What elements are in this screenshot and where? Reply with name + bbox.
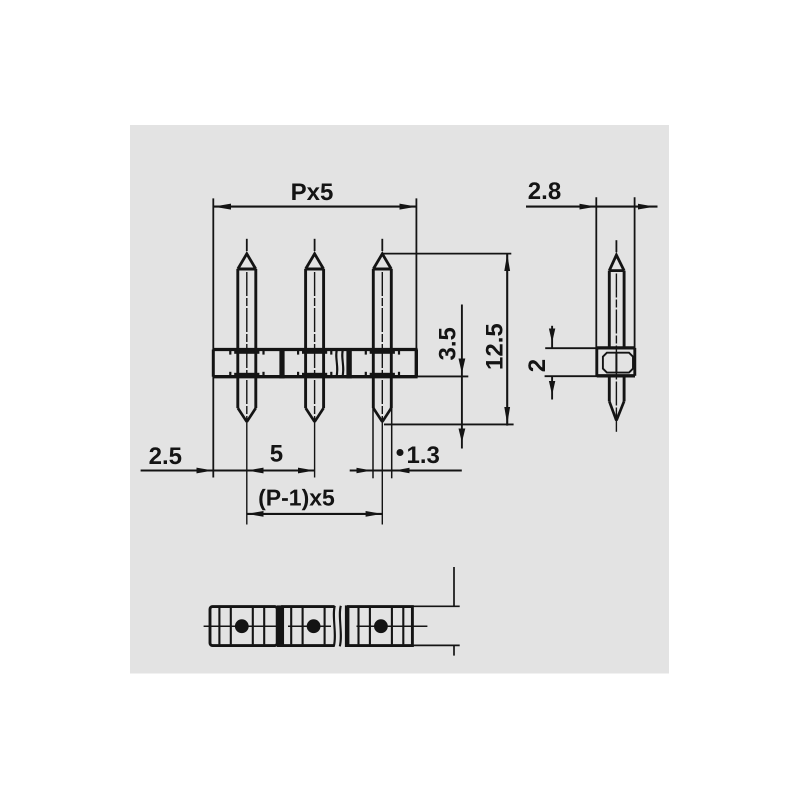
svg-text:2.5: 2.5 [149, 443, 182, 470]
side view: 2 dim lower arrow [549, 381, 555, 395]
bottom view bottom edge extension to right [412, 644, 459, 646]
label 5 [270, 440, 283, 467]
label 3.5 [435, 327, 462, 360]
arrow (P-1)x5 right [366, 511, 383, 517]
body collar around pin 2 [302, 348, 327, 378]
svg-text:2: 2 [524, 359, 551, 372]
body joint bar between unit 1 and unit 2 [279, 348, 284, 378]
side view: 2 top extension line [545, 347, 598, 349]
svg-text:3.5: 3.5 [435, 327, 462, 360]
label (P-1)x5 [258, 484, 335, 510]
svg-text:Px5: Px5 [291, 179, 334, 206]
dimension 3.5 upper line [461, 305, 463, 449]
dimension 3.5 upper arrow [459, 359, 466, 374]
extension line right of Px5 [415, 198, 417, 350]
body unit 3 left thick edge (front view) [346, 348, 351, 378]
side view: 2.8 left arrow [580, 204, 597, 210]
arrow 5 right [298, 468, 314, 474]
side view: 2.8 right extension line [634, 197, 636, 348]
arrow 2.5 pointing right [197, 468, 214, 474]
reference line from pin 3 top apex (12.5 datum) [382, 253, 511, 255]
dimension 12.5 line [506, 254, 508, 426]
arrow 1.3 left (pointing right) [357, 468, 372, 474]
bottom view unit 2 outline [283, 607, 335, 646]
arrow (P-1)x5 left [247, 511, 264, 517]
side view pin upper part [609, 240, 624, 432]
bottom view break curves [334, 606, 341, 647]
body front view outline [213, 350, 417, 377]
label 2 [524, 359, 551, 372]
bottom view vertical projection line upper [453, 567, 455, 606]
bottom view top edge extension to right [412, 605, 459, 607]
body collar around pin 3 [370, 348, 395, 378]
dimension 12.5 top arrow [504, 254, 510, 271]
side view: 2 dim lower line [551, 376, 553, 399]
bottom view unit 1 pin circle [235, 619, 249, 633]
bottom dimension line (1.3 segment) [350, 469, 462, 471]
label 12.5 [482, 323, 509, 370]
side view body [597, 348, 635, 376]
side view body inner chamfered box [603, 353, 633, 373]
svg-text:5: 5 [270, 440, 283, 467]
bullet of 1.3 [397, 449, 404, 456]
svg-text:2.8: 2.8 [528, 178, 561, 205]
bottom view unit 3 internal lines [359, 608, 404, 645]
svg-text:1.3: 1.3 [406, 442, 439, 469]
extension line pin3 left edge (1.3 datum) [372, 408, 374, 478]
side view: dimension 2.8 line [526, 206, 658, 208]
bottom view unit 1 centerline [204, 625, 280, 627]
dimension Px5 line [213, 206, 417, 208]
pin 3 front view [373, 239, 391, 525]
dimension (P-1)x5 line [247, 513, 382, 515]
dimension Px5 left arrow [214, 204, 232, 210]
bottom view joint bar [277, 605, 283, 647]
bottom view unit 3 centerline [357, 625, 428, 627]
label Px5 [291, 179, 334, 206]
reference line body bottom extended (3.5 datum) [396, 375, 468, 377]
label 2.8 [528, 178, 561, 205]
bottom dimension line (2.5 / 5 segment) [141, 469, 315, 471]
reference line from pin 3 bottom tip (12.5 datum) [384, 423, 514, 425]
arrow 1.3 right (pointing left) [395, 468, 410, 474]
dimension 12.5 bottom arrow [504, 407, 510, 424]
pin 2 front view [306, 239, 324, 478]
bottom view unit 2 centerline [288, 625, 331, 627]
dimension Px5 right arrow [400, 204, 417, 210]
pin 1 front view [238, 239, 256, 525]
side view: 2 dim upper line [551, 326, 553, 348]
extension line pin3 right edge (1.3 datum) [391, 408, 393, 478]
bottom view unit 2 internal lines [291, 608, 324, 645]
bottom view unit 1 internal lines [219, 608, 264, 645]
dimension 3.5 lower arrow [459, 429, 466, 443]
side view: 2.8 left extension line [595, 197, 597, 348]
svg-text:(P-1)x5: (P-1)x5 [258, 484, 335, 510]
arrow 5 left [247, 468, 264, 474]
label 1.3 [406, 442, 439, 469]
bottom view unit 3 outline [347, 607, 412, 646]
bottom view unit 3 left thick bar [345, 605, 350, 647]
body notch ticks [229, 348, 400, 378]
side view pin lower stub [609, 376, 624, 421]
svg-text:12.5: 12.5 [482, 323, 509, 370]
side view pin through body [615, 353, 617, 373]
extension line left (body left edge, runs to 2.5 dim) [212, 198, 214, 477]
side view: 2 bottom extension line [545, 375, 598, 377]
body collar around pin 1 [234, 348, 259, 378]
side view: 2 dim upper arrow [549, 329, 555, 343]
label 2.5 [149, 443, 182, 470]
side view: 2.8 right arrow [638, 204, 655, 210]
bottom view vertical projection tick lower [453, 645, 455, 655]
bottom view unit 3 pin circle [374, 619, 388, 633]
bottom view unit 1 outline [210, 607, 277, 646]
bottom view unit 2 pin circle [307, 619, 321, 633]
body break curves front view [336, 349, 343, 378]
